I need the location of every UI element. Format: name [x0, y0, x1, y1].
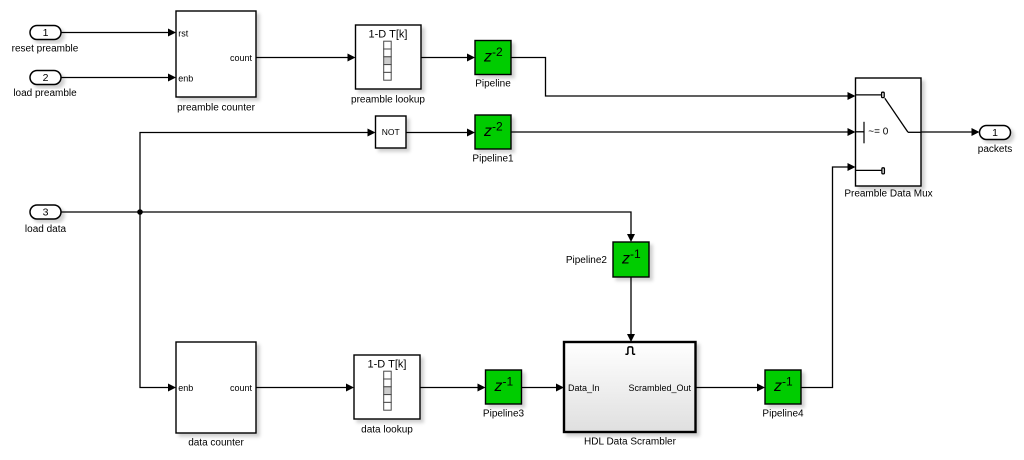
svg-text:count: count — [230, 383, 253, 393]
svg-text:z: z — [494, 378, 503, 395]
svg-text:Pipeline3: Pipeline3 — [483, 409, 525, 420]
svg-text:z: z — [773, 378, 782, 395]
wire inport1 to rst — [61, 29, 176, 37]
wire Pipeline4 to mux input 3 — [801, 163, 856, 388]
svg-text:count: count — [230, 53, 253, 63]
svg-text:Scrambled_Out: Scrambled_Out — [628, 383, 691, 393]
outport 1 packets — [978, 126, 1012, 156]
svg-text:-1: -1 — [782, 375, 793, 389]
svg-text:preamble lookup: preamble lookup — [351, 95, 425, 106]
svg-text:enb: enb — [178, 74, 193, 84]
svg-text:NOT: NOT — [382, 127, 400, 137]
svg-text:z: z — [483, 123, 492, 140]
wire inport3 to Pipeline2 — [61, 212, 635, 242]
junction node on load data wire — [137, 209, 143, 215]
inport 2 load preamble — [13, 71, 77, 100]
subsystem HDL Data Scrambler — [564, 342, 696, 448]
svg-text:Pipeline1: Pipeline1 — [472, 154, 514, 165]
lookup table preamble lookup — [351, 25, 425, 106]
svg-text:-1: -1 — [503, 375, 514, 389]
svg-text:Preamble Data Mux: Preamble Data Mux — [844, 189, 932, 200]
delay block Pipeline3 z^-1 — [483, 370, 525, 420]
wire Pipeline to mux input 1 — [511, 58, 856, 101]
svg-text:-1: -1 — [630, 247, 641, 261]
svg-text:z: z — [621, 251, 630, 268]
svg-text:z: z — [483, 49, 492, 66]
lookup table data lookup — [354, 355, 420, 436]
delay block Pipeline2 z^-1 — [566, 242, 649, 277]
wire branch junction to NOT — [140, 129, 376, 213]
wire Pipeline1 to mux input 2 — [511, 128, 856, 136]
svg-text:1-D T[k]: 1-D T[k] — [369, 29, 408, 41]
svg-text:rst: rst — [178, 29, 188, 39]
wire branch junction to data counter enb — [140, 212, 176, 392]
svg-text:~= 0: ~= 0 — [868, 127, 888, 138]
svg-text:Pipeline2: Pipeline2 — [566, 255, 608, 266]
svg-text:data counter: data counter — [188, 438, 244, 449]
svg-text:Pipeline4: Pipeline4 — [762, 409, 804, 420]
wire data lookup to Pipeline3 — [420, 384, 486, 392]
svg-text:3: 3 — [43, 207, 49, 219]
subsystem data counter — [176, 342, 256, 449]
svg-text:data lookup: data lookup — [361, 425, 413, 436]
wire data counter count to data lookup — [256, 384, 354, 392]
svg-text:1: 1 — [43, 27, 49, 39]
wire inport2 to enb — [61, 74, 176, 82]
inport 1 reset preamble — [12, 26, 79, 55]
svg-text:HDL Data Scrambler: HDL Data Scrambler — [584, 437, 677, 448]
svg-text:2: 2 — [43, 72, 49, 84]
svg-text:load preamble: load preamble — [13, 88, 77, 99]
wire Pipeline3 to scrambler Data_In — [522, 384, 565, 392]
wire Pipeline2 to scrambler trigger — [627, 277, 635, 342]
delay block Pipeline z^-2 — [475, 41, 511, 90]
wire Scrambled_Out to Pipeline4 — [696, 384, 766, 392]
wire mux to outport packets — [921, 128, 980, 136]
subsystem preamble counter — [176, 11, 256, 114]
svg-text:enb: enb — [178, 383, 193, 393]
svg-text:preamble counter: preamble counter — [177, 103, 255, 114]
delay block Pipeline1 z^-2 — [472, 115, 514, 165]
svg-text:1: 1 — [992, 127, 998, 139]
inport 3 load data — [25, 205, 67, 235]
svg-text:1-D T[k]: 1-D T[k] — [368, 359, 407, 371]
svg-text:Pipeline: Pipeline — [475, 79, 511, 90]
svg-text:Data_In: Data_In — [568, 383, 600, 393]
wire count to preamble lookup — [256, 54, 356, 62]
svg-text:packets: packets — [978, 144, 1012, 155]
switch Preamble Data Mux — [844, 78, 932, 200]
svg-text:load data: load data — [25, 224, 67, 235]
svg-text:reset preamble: reset preamble — [12, 44, 79, 55]
wire NOT to Pipeline1 — [406, 129, 475, 137]
svg-text:-2: -2 — [492, 120, 503, 134]
logic NOT block — [376, 116, 407, 148]
delay block Pipeline4 z^-1 — [762, 370, 804, 420]
wire preamble lookup to Pipeline — [421, 54, 475, 62]
svg-text:-2: -2 — [492, 45, 503, 59]
